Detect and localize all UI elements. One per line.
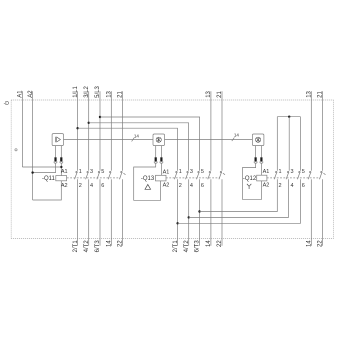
node star bridge junction	[288, 116, 290, 118]
contact Q13 pole 5-6	[197, 171, 200, 179]
svg-text:21: 21	[217, 90, 223, 97]
suppressor U1 symbol	[56, 137, 61, 142]
svg-text:-Q13: -Q13	[141, 176, 155, 182]
svg-text:A2: A2	[163, 182, 170, 188]
wire 13 Q13 vertical	[210, 91, 212, 171]
svg-text:-Q11: -Q11	[42, 176, 56, 182]
svg-text:A1: A1	[263, 169, 270, 175]
contact Q11 pole 1-2	[75, 171, 78, 179]
svg-text:1: 1	[179, 169, 182, 175]
wire 3/L2 vertical	[88, 91, 90, 171]
svg-text:2: 2	[79, 183, 82, 189]
wire L3 branch to Q13 pole 5	[100, 117, 200, 171]
svg-text:-D: -D	[4, 101, 10, 107]
contact Q11 pole 3-4	[86, 171, 89, 179]
suppressor module U3 on Q12	[252, 134, 264, 146]
node L1 branch junction	[76, 127, 78, 129]
wire 22 Q13 down	[221, 179, 223, 246]
wire L2 branch to Q13 pole 3	[89, 123, 189, 171]
node A2 junction	[31, 171, 33, 173]
svg-text:22: 22	[118, 240, 124, 247]
suppressor U2 symbol	[156, 137, 161, 142]
svg-text:14: 14	[107, 240, 113, 247]
svg-text:6: 6	[302, 183, 305, 189]
svg-text:13: 13	[206, 90, 212, 97]
wire 14 Q11 down	[110, 179, 112, 246]
wire tag slash 14	[132, 138, 135, 142]
wire 13 Q12 vertical	[310, 91, 312, 171]
wire 6/T3 Q11 down	[99, 179, 101, 246]
wire 1/L1 vertical	[77, 91, 79, 171]
wire plug right down to coil A1 Q12	[260, 163, 262, 175]
contact Q12 aux NO 13-14	[308, 171, 311, 179]
coil Q11	[56, 176, 67, 181]
svg-text:4/T2: 4/T2	[184, 240, 190, 253]
wire plug right down to coil A1 Q13	[160, 163, 162, 175]
suppressor module U2 on Q13	[153, 134, 165, 146]
plug contact Q11 right	[60, 157, 63, 163]
star symbol Y	[247, 184, 251, 189]
wire plug left to A2 loop Q12	[242, 163, 261, 199]
wire 5/L3 vertical	[99, 91, 101, 171]
wire 4/T2 Q11 down	[88, 179, 90, 246]
svg-text:A1: A1	[18, 90, 24, 98]
svg-text:6: 6	[101, 183, 104, 189]
node coil A1 junction	[60, 166, 62, 168]
wire Q12 pole 5 feed	[300, 117, 302, 171]
pin U3 right	[260, 146, 262, 158]
svg-text:5: 5	[302, 169, 305, 175]
wire 2/T1 Q13 down	[177, 179, 179, 246]
svg-text:22: 22	[318, 240, 324, 247]
wire plug right down to coil A1	[60, 163, 62, 175]
wire crossover Q13-2 to Q12-6	[178, 179, 301, 223]
svg-text:2: 2	[279, 183, 282, 189]
svg-text:4/T2: 4/T2	[84, 240, 90, 253]
wire A1 feed horizontal	[22, 166, 61, 168]
svg-text:2/T1: 2/T1	[173, 240, 179, 253]
svg-text:3: 3	[90, 169, 93, 175]
svg-text:1: 1	[279, 169, 282, 175]
svg-text:1/L1: 1/L1	[73, 85, 79, 97]
node Q13 pole4 junction	[188, 216, 190, 218]
svg-text:14: 14	[307, 240, 313, 247]
coil Q13	[156, 175, 167, 181]
pin U1 left	[55, 146, 57, 158]
svg-text:5: 5	[201, 169, 204, 175]
pin U1 right	[60, 146, 62, 158]
coil Q12	[257, 175, 267, 181]
wire A2 loop to coil A2	[33, 181, 62, 200]
plug contact Q12 left	[254, 157, 257, 163]
contact Q12 pole 5-6	[297, 171, 300, 179]
mechanical linkage Q12 dashed	[267, 177, 321, 179]
wire 21 Q11 vertical	[122, 91, 124, 171]
wire A1 vertical	[21, 91, 23, 167]
svg-text:14: 14	[134, 133, 140, 138]
wire plug left to A2 branch	[33, 163, 56, 172]
wire 21 Q13 vertical	[221, 91, 223, 171]
wire 22 Q12 down	[322, 179, 324, 246]
svg-text:22: 22	[217, 240, 223, 247]
svg-text:6/T3: 6/T3	[195, 240, 201, 253]
svg-text:2/T1: 2/T1	[73, 240, 79, 253]
wire plug left to A2 loop Q13	[134, 163, 161, 200]
pin U3 left	[255, 146, 257, 158]
plug contact Q11 left	[54, 157, 57, 163]
node L2 branch junction	[88, 122, 90, 124]
svg-text:13: 13	[307, 90, 313, 97]
node Q13 pole6 junction	[198, 210, 200, 212]
contact Q13 pole 3-4	[186, 171, 189, 179]
pin U2 right	[160, 146, 162, 158]
svg-text:14: 14	[206, 240, 212, 247]
node Q13 pole2 junction	[176, 222, 178, 224]
contact Q13 pole 1-2	[174, 171, 177, 179]
wire Q12 pole 1 feed	[276, 117, 278, 171]
svg-text:-Q12: -Q12	[243, 176, 257, 182]
delta symbol	[145, 184, 151, 189]
svg-text:14: 14	[234, 133, 240, 138]
svg-text:3/L2: 3/L2	[84, 85, 90, 97]
svg-text:21: 21	[318, 90, 324, 97]
wire crossover Q13-6 to Q12-2	[200, 179, 278, 211]
svg-text:A2: A2	[28, 90, 34, 98]
wire 13 Q11 vertical	[110, 91, 112, 171]
wire 14 link Q11 box to Q13 box	[64, 139, 153, 141]
wire 4/T2 Q13 down	[188, 179, 190, 246]
suppressor module U1 on Q11	[52, 134, 63, 146]
wire 22 Q11 down	[122, 179, 124, 246]
wire star bridge Q12	[277, 116, 300, 118]
svg-text:5: 5	[101, 169, 104, 175]
enclosure dashed border -D	[11, 100, 333, 239]
svg-text:13: 13	[107, 90, 113, 97]
svg-text:6: 6	[201, 183, 204, 189]
wire 2/T1 Q11 down	[77, 179, 79, 246]
wire Q12 pole 3 feed	[288, 117, 290, 171]
svg-text:3: 3	[291, 169, 294, 175]
contact Q12 aux NC 21-22	[319, 171, 325, 179]
contact Q13 aux NO 13-14	[208, 171, 211, 179]
contact Q13 aux NC 21-22	[219, 171, 225, 179]
wire crossover Q13-4 to Q12-4	[189, 179, 289, 217]
svg-text:A2: A2	[61, 183, 68, 189]
contact Q12 pole 3-4	[286, 171, 289, 179]
plug contact Q12 right	[260, 157, 263, 163]
svg-text:21: 21	[118, 90, 124, 97]
mechanical linkage Q11 dashed	[67, 177, 121, 179]
contact Q11 aux NO 13-14	[108, 171, 111, 179]
wire 14 Q12 down	[310, 179, 312, 246]
wire tag slash 14	[232, 137, 235, 141]
svg-text:5/L3: 5/L3	[95, 85, 101, 97]
wire L1 branch to Q13 pole 1	[78, 128, 178, 171]
wire 14 link Q13 box to Q12 box	[165, 139, 253, 141]
svg-text:A1: A1	[61, 169, 68, 175]
reference mark o	[15, 149, 17, 151]
svg-text:2: 2	[179, 183, 182, 189]
svg-text:A1: A1	[163, 170, 170, 176]
plug contact Q13 right	[160, 157, 163, 163]
contact Q12 pole 1-2	[274, 171, 277, 179]
svg-text:4: 4	[90, 183, 93, 189]
svg-text:4: 4	[190, 183, 193, 189]
svg-text:1: 1	[79, 169, 82, 175]
suppressor U3 symbol	[256, 137, 261, 142]
svg-text:6/T3: 6/T3	[95, 240, 101, 253]
wire 14 Q13 down	[210, 179, 212, 246]
contact Q11 pole 5-6	[97, 171, 100, 179]
pin U2 left	[155, 146, 157, 158]
mechanical linkage Q13 dashed	[166, 177, 220, 179]
svg-text:4: 4	[291, 183, 294, 189]
plug contact Q13 left	[154, 157, 157, 163]
contact Q11 aux NC 21-22	[119, 171, 125, 179]
svg-text:3: 3	[190, 169, 193, 175]
wire A2 vertical	[32, 91, 34, 200]
svg-text:A2: A2	[263, 183, 270, 189]
wire 6/T3 Q13 down	[199, 179, 201, 246]
wire 21 Q12 vertical	[322, 91, 324, 171]
node L3 branch junction	[99, 116, 101, 118]
